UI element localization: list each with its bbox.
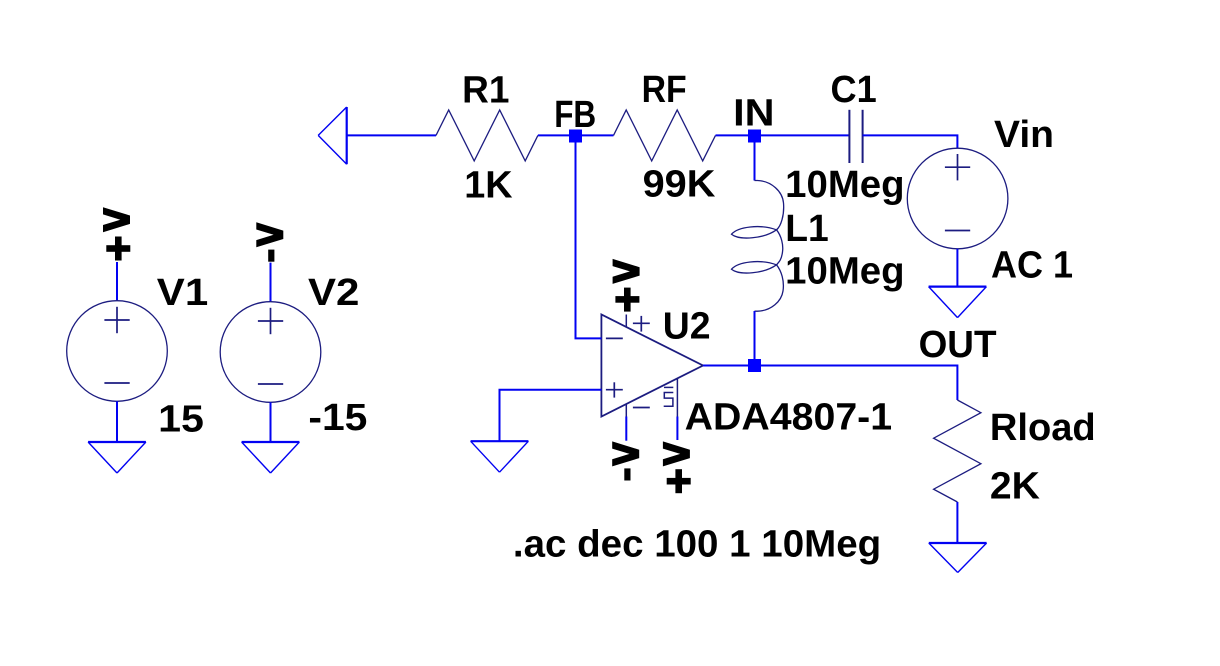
svg-text:IN: IN	[733, 93, 774, 135]
op-amp U2 minus marker (inverting input)	[606, 337, 623, 339]
wire (R1 to FB node)	[538, 134, 570, 136]
wire (RF to IN node)	[716, 134, 749, 136]
wire (V1 to ground)	[116, 401, 118, 442]
svg-text:Rload: Rload	[990, 407, 1096, 449]
wire (IN node down to L1)	[754, 143, 756, 181]
svg-text:U2: U2	[663, 306, 711, 348]
wire (C1 to Vin)	[863, 135, 958, 148]
svg-text:OUT: OUT	[919, 324, 997, 366]
wire (V2 label to circle)	[270, 263, 272, 302]
svg-text:C1: C1	[831, 69, 877, 111]
net label V+ (below op-amp right pin, rotated)	[663, 441, 691, 493]
svg-text:V2: V2	[308, 272, 359, 314]
pin number 5 (overlined, power-down pin)	[664, 387, 674, 406]
svg-text:-15: -15	[308, 397, 367, 439]
wire (FB to RF)	[582, 134, 614, 136]
op-amp U2 plus marker (non-inverting input)	[606, 382, 623, 397]
net label V+ (above V1, rotated)	[103, 207, 130, 260]
svg-text:L1: L1	[785, 208, 829, 250]
op-amp U2 bottom-left power pin stub	[625, 404, 627, 417]
ground (below Vin)	[929, 287, 987, 318]
ground (left, rotated, at R1 left terminal)	[318, 107, 347, 164]
svg-text:Vin: Vin	[994, 114, 1054, 156]
net label V+ (above op-amp, rotated)	[613, 259, 640, 312]
svg-text:R1: R1	[462, 70, 509, 112]
wire (L1 to OUT node)	[754, 311, 756, 359]
wire (IN to C1)	[761, 134, 849, 136]
svg-text:V1: V1	[157, 272, 208, 314]
node OUT junction	[748, 359, 761, 372]
svg-text:99K: 99K	[643, 164, 716, 206]
wire (V2 to ground)	[270, 402, 272, 442]
op-amp U2 minus marker (V- pin)	[633, 407, 650, 409]
wire (non-inverting input to ground)	[500, 390, 602, 442]
svg-text:1K: 1K	[464, 165, 513, 207]
voltage source V2	[220, 302, 321, 403]
wire (op-amp output to OUT node)	[703, 365, 748, 367]
capacitor C1	[849, 110, 862, 163]
svg-text:RF: RF	[642, 69, 687, 111]
voltage source V1	[67, 301, 168, 402]
svg-text:.ac dec 100 1 10Meg: .ac dec 100 1 10Meg	[513, 524, 881, 566]
wire (PD pin down to V+ label)	[676, 417, 678, 441]
op-amp U2 plus marker (top pin)	[633, 316, 650, 332]
wire (V1 label to circle)	[116, 262, 118, 301]
node IN junction	[748, 130, 761, 143]
svg-text:2K: 2K	[990, 466, 1041, 508]
ground (at non-inverting input)	[471, 441, 529, 472]
svg-text:ADA4807-1: ADA4807-1	[685, 397, 892, 439]
op-amp U2 bottom-right power-down pin stub	[676, 378, 678, 416]
node FB junction	[569, 130, 582, 143]
ground (below V2)	[242, 442, 300, 473]
svg-text:AC 1: AC 1	[991, 245, 1073, 287]
svg-text:10Meg: 10Meg	[785, 251, 904, 293]
wire (Vin to ground)	[956, 249, 958, 287]
ground (below Rload)	[929, 543, 987, 573]
op-amp U2 top power pin stub	[625, 315, 627, 328]
net label V- (below op-amp left pin, rotated)	[612, 441, 639, 480]
ground (below V1)	[88, 442, 146, 473]
resistor R1	[436, 110, 538, 161]
svg-text:10Meg: 10Meg	[785, 164, 904, 206]
wire (left ground to R1)	[347, 134, 436, 136]
resistor RF	[614, 110, 716, 161]
inductor L1	[732, 181, 784, 312]
wire (Rload to ground)	[956, 502, 958, 543]
resistor Rload	[934, 400, 981, 502]
voltage source Vin	[907, 148, 1008, 249]
net label V- (above V2, rotated)	[256, 222, 283, 261]
wire (FB node down to inverting input)	[576, 143, 602, 339]
wire (V- pin down to V- label)	[625, 417, 627, 441]
op-amp U2 triangle	[601, 315, 703, 417]
svg-text:15: 15	[158, 399, 204, 441]
svg-text:FB: FB	[554, 94, 596, 136]
wire (OUT node to Rload)	[761, 366, 957, 401]
